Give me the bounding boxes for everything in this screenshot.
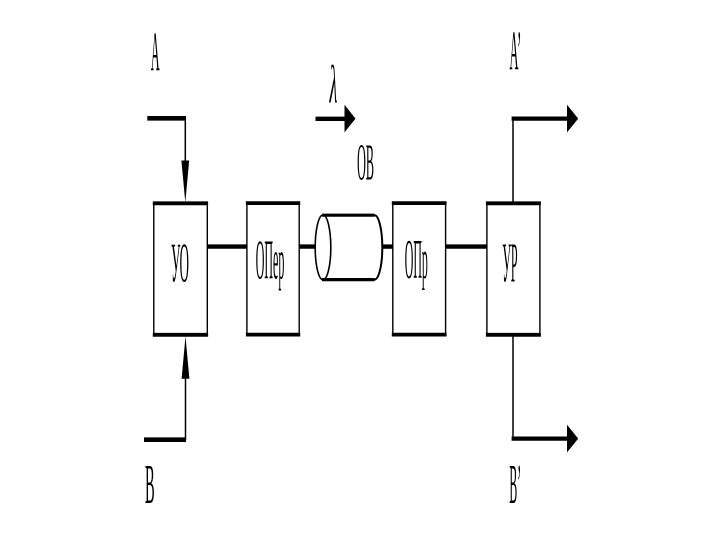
cylinder OB (optical fiber)	[315, 215, 382, 280]
label UR text	[502, 232, 517, 294]
wire output A' horizontal	[512, 116, 568, 120]
wire output B' horizontal	[512, 436, 568, 440]
label OB	[357, 134, 374, 192]
label OPer text	[256, 229, 285, 291]
wire input A horizontal stub	[147, 116, 186, 121]
wire OPer to cylinder	[299, 244, 320, 248]
svg-text:λ: λ	[329, 54, 337, 114]
svg-text:УР: УР	[502, 232, 517, 294]
wire cylinder to OPr	[378, 244, 393, 248]
label UO text	[171, 232, 189, 294]
wire OPr to UR	[446, 244, 487, 248]
block UO	[153, 203, 208, 334]
arrowhead output A'	[567, 105, 578, 133]
label B'	[509, 453, 521, 515]
svg-text:ОВ: ОВ	[357, 134, 374, 192]
label OPr text	[405, 228, 428, 290]
wire input B vertical	[185, 379, 187, 441]
label A	[151, 21, 160, 83]
svg-text:B’: B’	[509, 453, 521, 515]
arrowhead output B'	[567, 425, 578, 453]
svg-text:ОПр: ОПр	[405, 228, 428, 290]
wire output A' vertical	[512, 118, 514, 203]
arrowhead into UO bottom	[182, 336, 190, 379]
svg-text:B: B	[145, 454, 155, 516]
svg-text:A’: A’	[510, 20, 522, 82]
wire UO to OPer	[208, 244, 247, 248]
block UR	[486, 203, 541, 334]
wire input B horizontal stub	[144, 437, 186, 442]
wire input A vertical	[184, 117, 186, 161]
arrowhead into UO top	[181, 161, 189, 203]
svg-text:УО: УО	[171, 232, 189, 294]
svg-text:A: A	[151, 21, 160, 83]
lambda arrow line	[316, 117, 346, 121]
block OPer	[246, 203, 300, 335]
label lambda	[329, 54, 337, 114]
label B	[145, 454, 155, 516]
block OPr	[392, 203, 447, 335]
wire output B' vertical	[512, 335, 514, 439]
arrowhead lambda	[345, 105, 356, 133]
label A'	[510, 20, 522, 82]
svg-text:ОПер: ОПер	[256, 229, 285, 291]
